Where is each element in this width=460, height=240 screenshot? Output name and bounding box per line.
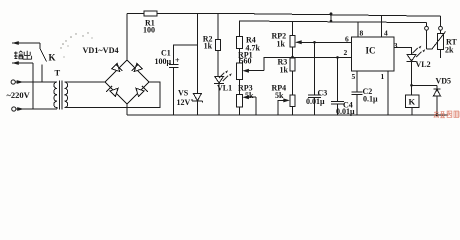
wire bridge - output to ground rail xyxy=(126,104,128,115)
bridge rectifier VD1~VD4 xyxy=(105,60,149,104)
svg-text:4: 4 xyxy=(384,29,388,38)
svg-text:12V: 12V xyxy=(177,98,191,107)
wire pin 1 xyxy=(387,71,389,115)
svg-text:100μ: 100μ xyxy=(155,57,172,66)
potentiometer RP4 xyxy=(290,95,295,107)
wire R2 column xyxy=(217,14,219,40)
capacitor C2 xyxy=(352,92,363,115)
node junction R3 top xyxy=(291,56,294,59)
wire RP2 to R3 xyxy=(292,47,294,58)
wire RP4 to ground xyxy=(292,107,294,116)
potentiometer RP1 xyxy=(237,63,264,80)
wire RP1 wiper to R3 node xyxy=(264,57,293,70)
wire output arrow 1 xyxy=(12,41,40,48)
capacitor C1 xyxy=(169,65,179,116)
relay coil K xyxy=(406,95,420,115)
wire RP3 bottom to ground xyxy=(239,107,241,115)
resistor R4 xyxy=(237,37,243,49)
LED VL2 xyxy=(406,46,425,96)
svg-text:~220V: ~220V xyxy=(7,90,31,100)
label 输出 xyxy=(14,51,32,59)
IC box xyxy=(352,37,394,71)
switch K (relay contact) xyxy=(40,49,47,83)
svg-text:VS: VS xyxy=(178,89,189,98)
svg-text:560: 560 xyxy=(240,57,252,66)
svg-text:VL2: VL2 xyxy=(416,60,431,69)
wire pin 5 xyxy=(356,71,358,92)
wire pin 8 xyxy=(357,22,359,37)
terminal RT right xyxy=(439,16,443,33)
wire 220V top xyxy=(15,80,57,84)
svg-text:K: K xyxy=(49,53,56,63)
resistor R3 xyxy=(290,58,295,71)
svg-text:1k: 1k xyxy=(204,41,213,50)
wire C1 branch xyxy=(174,45,198,64)
wire C3 branch xyxy=(314,42,316,95)
wire R4 to RP1 xyxy=(239,49,241,64)
wire top rail xyxy=(127,13,441,16)
svg-text:6: 6 xyxy=(345,35,349,44)
svg-text:100: 100 xyxy=(143,26,155,35)
wire ground rail xyxy=(127,114,448,116)
node junction dot pin6 line xyxy=(313,41,316,44)
node junction dot on main rail xyxy=(330,12,333,15)
svg-text:IC: IC xyxy=(366,46,376,56)
wire sub-rail (R4/RP2/pin8 supply) xyxy=(240,21,427,37)
wire pin2 to C4 xyxy=(293,56,352,58)
transformer T xyxy=(54,81,68,110)
svg-text:2k: 2k xyxy=(445,46,454,55)
svg-text:T: T xyxy=(55,68,61,78)
wire R3 to RP4 xyxy=(292,71,294,95)
svg-text:8: 8 xyxy=(360,29,364,38)
svg-text:VL1: VL1 xyxy=(217,84,232,93)
svg-text:1k: 1k xyxy=(277,40,286,49)
resistor R1 xyxy=(144,11,157,16)
terminal RT left xyxy=(425,23,429,49)
thermistor RT xyxy=(427,32,446,59)
wire secondary bottom / AC return xyxy=(65,82,161,108)
diode VD5 xyxy=(433,85,440,116)
diode VD2 (upper-right edge) xyxy=(132,63,143,71)
svg-text:VD5: VD5 xyxy=(436,77,452,86)
diode VD3 (lower-left edge) xyxy=(106,86,118,97)
svg-text:0.01μ: 0.01μ xyxy=(336,107,355,116)
watermark specks xyxy=(60,32,92,57)
wire link main rail to sub-rail xyxy=(330,15,332,22)
svg-text:5k: 5k xyxy=(275,91,284,100)
wire R2 to VL1 xyxy=(217,51,219,77)
terminal input N xyxy=(12,107,16,111)
wire secondary top to bridge xyxy=(65,81,106,83)
wire bridge + output to top rail xyxy=(126,14,128,61)
diode VD1 (upper-left edge) xyxy=(112,63,123,71)
wire pin 3 output xyxy=(394,48,412,55)
svg-text:VD1~VD4: VD1~VD4 xyxy=(83,46,119,55)
wire 220V bottom xyxy=(16,107,57,111)
svg-text:K: K xyxy=(409,97,416,107)
diode VD4 (lower-right edge) xyxy=(136,86,148,97)
wire RP2 column top xyxy=(292,22,294,36)
wire VS column xyxy=(196,14,198,94)
svg-text:0.01μ: 0.01μ xyxy=(306,97,325,106)
resistor R2 xyxy=(215,40,220,51)
watermark red site name xyxy=(434,111,460,118)
svg-text:1k: 1k xyxy=(280,66,289,75)
zener diode VS xyxy=(192,94,203,116)
wire RP3 wiper bus to RP4 wiper xyxy=(255,97,257,115)
potentiometer RP2 xyxy=(290,36,352,48)
svg-text:1: 1 xyxy=(381,72,385,81)
svg-text:+: + xyxy=(175,56,180,65)
svg-text:0.1μ: 0.1μ xyxy=(363,95,378,104)
capacitor C4 xyxy=(331,102,344,116)
wire pin 4 xyxy=(380,15,382,37)
terminal input L xyxy=(11,80,15,84)
capacitor C3 xyxy=(308,95,321,115)
wire RP1 to RP3 xyxy=(239,80,241,95)
LED VL1 xyxy=(214,70,232,115)
svg-text:2: 2 xyxy=(344,48,348,57)
svg-text:5k: 5k xyxy=(245,91,254,100)
svg-text:5: 5 xyxy=(352,72,356,81)
wire VD5 branch xyxy=(412,84,438,86)
wire output arrow 2 xyxy=(12,61,33,109)
node junction dot K/VD5 xyxy=(410,84,413,87)
svg-text:3: 3 xyxy=(394,41,398,50)
potentiometer RP3 xyxy=(237,95,256,108)
